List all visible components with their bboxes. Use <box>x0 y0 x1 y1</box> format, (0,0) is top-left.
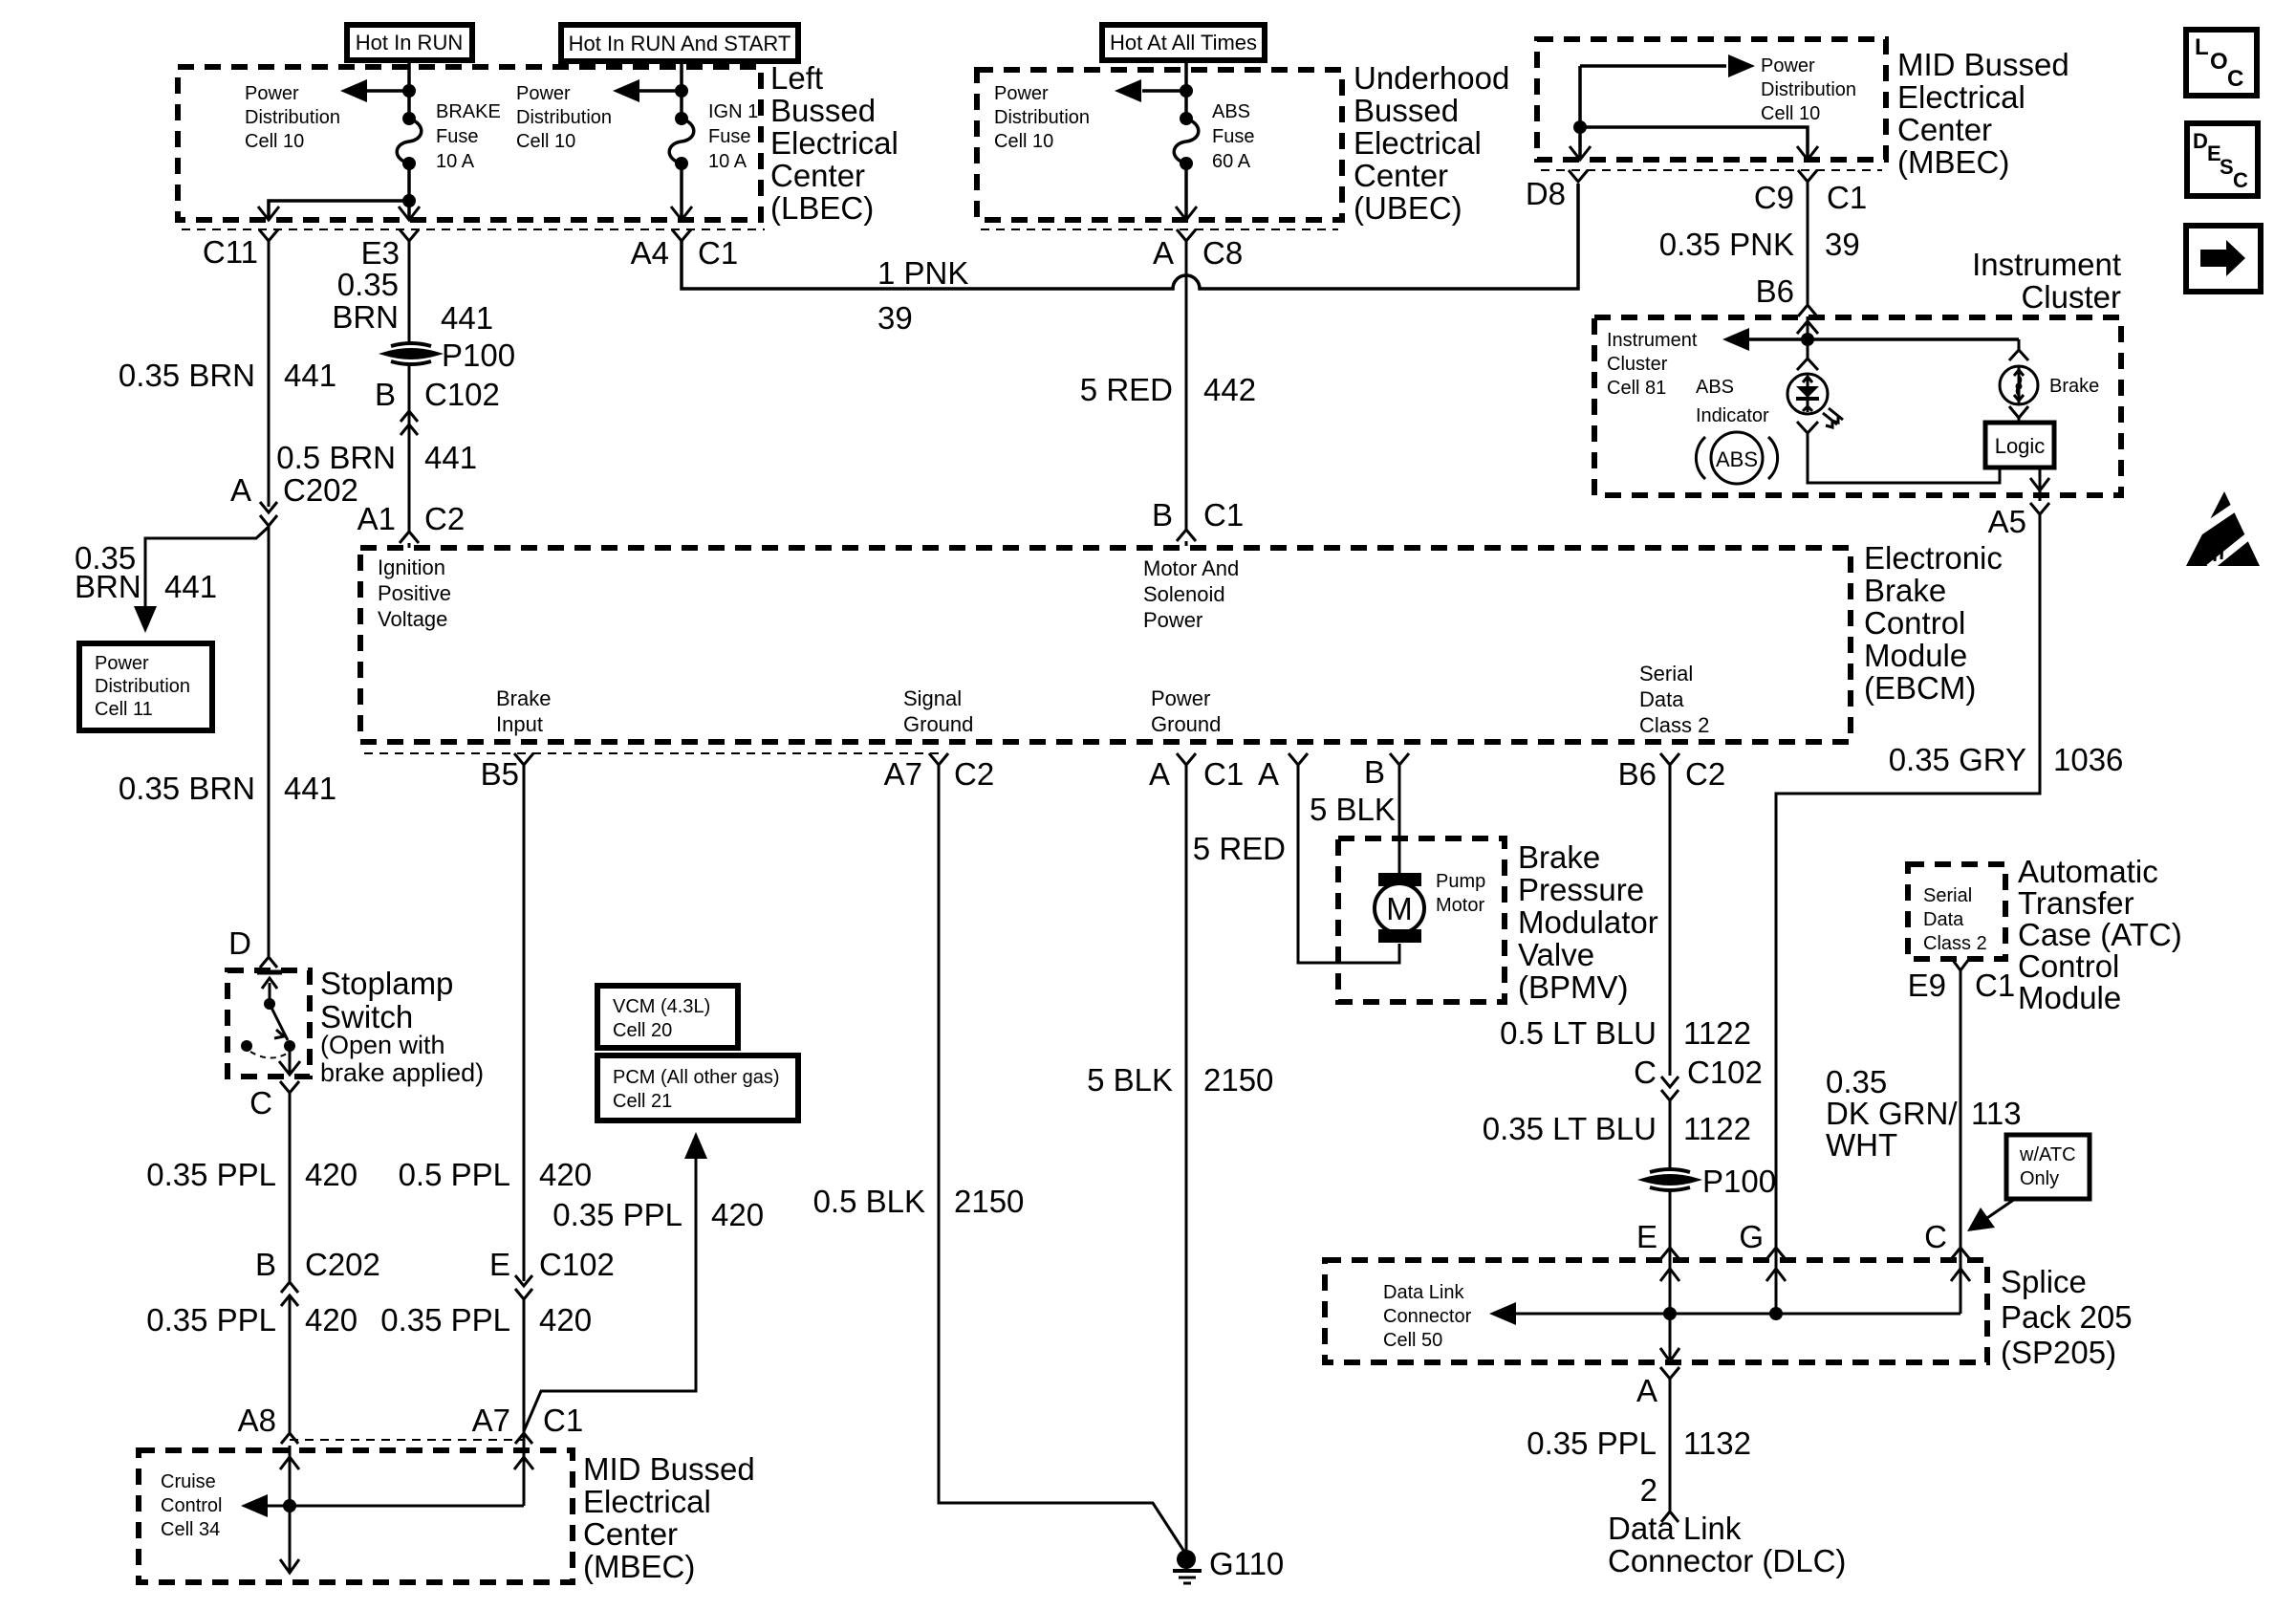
svg-text:BRN: BRN <box>332 299 399 335</box>
wire: 0.35 PPL 420 from C102 to A7/C1 <box>523 1299 526 1433</box>
svg-text:C102: C102 <box>424 377 500 412</box>
svg-text:420: 420 <box>539 1302 592 1338</box>
connector E / C102 (inline, pointing down) <box>489 1247 615 1299</box>
connector A1 / C2 into EBCM top <box>357 501 466 548</box>
svg-text:420: 420 <box>539 1157 592 1192</box>
svg-text:B6: B6 <box>1618 756 1657 792</box>
svg-text:IgnitionPositiveVoltage: IgnitionPositiveVoltage <box>378 555 451 631</box>
svg-text:5 RED: 5 RED <box>1080 372 1173 407</box>
svg-text:B: B <box>255 1247 276 1282</box>
Brake bulb <box>2000 366 2038 405</box>
svg-text:B5: B5 <box>481 756 519 792</box>
connector A (motor power) <box>1258 753 1308 792</box>
connector D8 <box>1526 170 1588 211</box>
wire: 0.35 PPL 420 from C202 to A8 <box>289 1295 292 1434</box>
svg-text:0.5 PPL: 0.5 PPL <box>399 1157 510 1192</box>
wire: 0.35 LT BLU to P100 <box>1669 1100 1672 1167</box>
splice P100 (lower) <box>1644 1164 1776 1199</box>
svg-text:0.35: 0.35 <box>337 267 399 302</box>
svg-text:39: 39 <box>1825 227 1860 262</box>
svg-text:0.35 PPL: 0.35 PPL <box>146 1157 276 1192</box>
arrow into edge at D8 <box>1570 146 1591 160</box>
svg-text:Hot In RUN: Hot In RUN <box>356 31 463 54</box>
connector C / C102 (inline, pointing down) <box>1634 1055 1763 1100</box>
wire: B5 brake input from EBCM down <box>523 765 526 1281</box>
svg-text:B6: B6 <box>1756 273 1794 309</box>
svg-text:A: A <box>1153 235 1174 271</box>
connector C9 / C1 <box>1754 170 1867 215</box>
fuse BRAKE 10A <box>397 112 422 170</box>
wire: 1 PNK 39 from A4/C1 to D8 with hop over ABS wire <box>682 184 1578 289</box>
connector A8 into MBEC <box>238 1403 298 1444</box>
svg-text:0.5 BLK: 0.5 BLK <box>813 1184 925 1219</box>
splice P100 (upper) <box>385 337 515 373</box>
wire: internal feed line with left arrow <box>1749 337 2019 341</box>
icon: ESD warning triangle <box>2186 491 2260 568</box>
arrow: logic output crossing cluster edge <box>2030 478 2049 490</box>
svg-text:113: 113 <box>1971 1096 2022 1131</box>
wire: P100 to splice pack E <box>1669 1191 1672 1260</box>
wire: arrow to Power Distribution (left) <box>365 89 409 93</box>
svg-text:Hot In RUN And START: Hot In RUN And START <box>569 32 791 55</box>
svg-text:C: C <box>2233 168 2248 192</box>
connector C (stoplamp switch output) <box>249 1081 299 1120</box>
connector line above MBEC bottom box <box>290 1439 524 1441</box>
wire: splice bus with left arrow <box>1516 1313 1960 1316</box>
svg-text:C: C <box>249 1085 272 1120</box>
svg-text:1036: 1036 <box>2053 742 2123 777</box>
wire: 0.35 PNK 39 from C9/C1 to cluster B6 <box>1807 182 1809 304</box>
svg-text:A7: A7 <box>884 756 922 792</box>
Logic box <box>1985 423 2054 468</box>
arrow into edge at C9 <box>1797 146 1818 160</box>
svg-text:D: D <box>2193 129 2208 153</box>
svg-text:D8: D8 <box>1526 176 1566 211</box>
component box: w/ATC Only <box>2006 1135 2090 1199</box>
connector A7 / C1 into MBEC (slash) <box>472 1403 584 1446</box>
connector B (pump motor return) <box>1364 753 1409 790</box>
wire: G entry arrow inside splice pack <box>1775 1260 1778 1314</box>
wire: internal distribution tee with junction dot <box>1578 66 1582 160</box>
connector B6 into cluster <box>1756 273 1817 339</box>
arrow into UBEC edge at A <box>1176 207 1197 220</box>
wire: 5 BLK pump motor B <box>1398 765 1401 876</box>
connector line under LBEC <box>182 228 765 230</box>
svg-text:0.35 PNK: 0.35 PNK <box>1659 227 1794 262</box>
svg-text:ABSFuse60 A: ABSFuse60 A <box>1212 101 1254 172</box>
wire: 0.35 BRN 441 down to stoplamp D <box>268 526 271 956</box>
svg-text:E: E <box>1636 1219 1657 1254</box>
svg-text:P100: P100 <box>1702 1164 1776 1199</box>
wire: bulb to Logic <box>2009 406 2028 418</box>
fuse IGN 1 10A <box>613 61 694 170</box>
svg-text:A4: A4 <box>631 235 669 271</box>
wire: E entry arrow inside splice pack <box>1669 1260 1672 1314</box>
svg-text:1122: 1122 <box>1683 1015 1751 1051</box>
node: bus junction at G <box>1769 1307 1783 1320</box>
svg-text:A8: A8 <box>238 1403 276 1438</box>
connector A below splice pack <box>1636 1367 1679 1408</box>
icon: DESC box <box>2187 123 2258 196</box>
svg-text:0.35 GRY: 0.35 GRY <box>1889 742 2026 777</box>
connector A / C1 (power ground) <box>1149 753 1244 792</box>
UBEC dashed box (Underhood Bussed Electrical Center) <box>977 70 1342 220</box>
svg-text:C202: C202 <box>305 1247 380 1282</box>
wire: C entry arrow inside splice pack <box>1960 1260 1962 1314</box>
svg-text:C11: C11 <box>203 234 258 270</box>
connector E into splice pack <box>1636 1219 1679 1258</box>
icon: LOC box <box>2186 30 2257 96</box>
wire: 0.35 PPL 1132 to DLC <box>1669 1379 1672 1512</box>
svg-text:Hot At All Times: Hot At All Times <box>1110 31 1257 54</box>
svg-text:0.5 LT BLU: 0.5 LT BLU <box>1500 1015 1657 1051</box>
EBCM dashed box (Electronic Brake Control Module) <box>360 548 1851 742</box>
svg-text:1 PNK: 1 PNK <box>877 255 968 291</box>
svg-text:1122: 1122 <box>1683 1111 1751 1146</box>
svg-text:5 BLK: 5 BLK <box>1310 792 1396 827</box>
svg-text:C: C <box>1634 1055 1657 1090</box>
svg-text:ABS: ABS <box>1716 447 1758 471</box>
svg-text:441: 441 <box>284 358 336 393</box>
svg-text:E: E <box>489 1247 510 1282</box>
Instrument Cluster dashed box <box>1594 317 2121 495</box>
svg-text:C202: C202 <box>283 472 358 508</box>
svg-text:M: M <box>1386 891 1413 926</box>
node: junction dot ABS feed <box>1180 84 1193 98</box>
wire: LED output to logic bus <box>1797 422 1818 433</box>
wire: LED to logic bus <box>1808 433 2000 483</box>
node: junction dot brake feed <box>402 84 416 98</box>
connector B / C102 (inline, pointing up) <box>375 365 500 436</box>
svg-text:0.35 PPL: 0.35 PPL <box>1527 1425 1657 1461</box>
connector E3 <box>361 229 419 344</box>
svg-text:BRN: BRN <box>75 569 141 604</box>
ground G110 <box>1173 1546 1284 1583</box>
svg-text:C2: C2 <box>1685 756 1725 792</box>
svg-text:D: D <box>228 925 251 961</box>
wire: 5 RED motor power A <box>1298 765 1399 963</box>
symbol: (ABS) telltale <box>1696 432 1777 484</box>
svg-text:C1: C1 <box>543 1403 583 1438</box>
component box: VCM (4.3L) Cell 20 <box>597 986 738 1048</box>
wire: A exit from splice pack <box>1669 1314 1672 1365</box>
svg-text:P100: P100 <box>442 337 515 373</box>
svg-text:A: A <box>1149 756 1170 792</box>
svg-text:E9: E9 <box>1908 968 1946 1003</box>
icon: next-page arrow box <box>2186 226 2261 292</box>
connector B / C202 (inline, pointing up) <box>255 1247 380 1306</box>
LED light rays <box>1823 408 1843 427</box>
svg-text:39: 39 <box>877 300 913 336</box>
svg-text:C: C <box>1924 1219 1947 1254</box>
svg-text:441: 441 <box>284 771 336 806</box>
svg-text:0.35 PPL: 0.35 PPL <box>146 1302 276 1338</box>
svg-text:441: 441 <box>424 440 477 475</box>
svg-text:5 BLK: 5 BLK <box>1087 1062 1173 1098</box>
svg-text:C1: C1 <box>698 235 738 271</box>
svg-text:B: B <box>1152 497 1173 533</box>
svg-text:C8: C8 <box>1202 235 1243 271</box>
power label box: Hot In RUN <box>347 25 472 60</box>
svg-text:C1: C1 <box>1203 497 1244 533</box>
LBEC dashed box (Left Bussed Electrical Center) <box>178 67 761 220</box>
wire: 0.35 DK GRN/WHT 113 from E9/C1 to splice pack C <box>1960 970 1962 1260</box>
wire: IGN1 fuse output <box>680 163 683 220</box>
svg-text:0.35 PPL: 0.35 PPL <box>552 1197 682 1232</box>
MBEC bottom dashed box <box>139 1450 573 1582</box>
ABS Indicator LED <box>1787 374 1828 414</box>
connector E9 / C1 <box>1908 959 2016 1003</box>
arrow into LBEC edge at A4 <box>671 207 692 220</box>
wire: Logic output down through cluster edge <box>2039 468 2042 501</box>
svg-text:2: 2 <box>1640 1472 1657 1508</box>
svg-text:A: A <box>1636 1373 1657 1408</box>
svg-text:C1: C1 <box>1203 756 1244 792</box>
svg-text:442: 442 <box>1203 372 1256 407</box>
arrow: A8 wire exits bottom of MBEC <box>280 1559 299 1573</box>
connector line under EBCM (left part) <box>364 752 942 754</box>
stoplamp switch S1 <box>227 970 310 1077</box>
svg-text:2150: 2150 <box>954 1184 1024 1219</box>
arrow into LBEC edge at C11 <box>258 207 279 220</box>
wire: A8 entry arrow inside MBEC <box>289 1446 292 1573</box>
svg-text:C9: C9 <box>1754 180 1794 215</box>
svg-text:Brake: Brake <box>2049 376 2099 397</box>
node: junction dot at branch <box>402 194 416 207</box>
pump motor M <box>1375 873 1424 943</box>
svg-text:C: C <box>2227 66 2243 92</box>
connector line under UBEC <box>981 228 1338 230</box>
node: junction dot cluster feed <box>1801 333 1814 346</box>
wire: 5 RED 442 from UBEC A/C8 to EBCM B/C1 <box>1185 241 1188 531</box>
svg-text:420: 420 <box>305 1157 357 1192</box>
component box: Power Distribution Cell 11 <box>79 643 212 730</box>
svg-text:C1: C1 <box>1827 180 1867 215</box>
svg-text:C2: C2 <box>954 756 994 792</box>
BPMV dashed box <box>1338 838 1505 1002</box>
svg-text:S: S <box>2220 155 2234 179</box>
wire: Hot At All Times feed <box>1184 60 1188 119</box>
svg-text:A1: A1 <box>357 501 396 536</box>
connector A4 / C1 <box>631 229 739 271</box>
svg-text:A7: A7 <box>472 1403 510 1438</box>
svg-text:L: L <box>2195 34 2209 60</box>
wire: LED feed stub <box>1807 339 1809 359</box>
wire: arrow to Power Distribution (UBEC) <box>1142 89 1186 93</box>
svg-text:420: 420 <box>305 1302 357 1338</box>
wire: branch to PCM/VCM riser <box>524 1147 696 1431</box>
svg-text:B: B <box>1364 754 1385 790</box>
svg-text:E3: E3 <box>361 235 400 271</box>
wire: arrow pointing right to Power Distribution <box>1580 64 1726 68</box>
svg-text:C102: C102 <box>539 1247 615 1282</box>
node: bus junction at E <box>1663 1307 1677 1320</box>
MBEC dashed box top (MID Bussed Electrical Center) <box>1537 39 1886 160</box>
wire: fuse output down and branch left <box>407 163 411 220</box>
connector B5 <box>481 753 533 792</box>
svg-text:2150: 2150 <box>1203 1062 1273 1098</box>
connector pin 2 of DLC <box>1640 1472 1679 1522</box>
svg-text:O: O <box>2210 49 2228 75</box>
svg-text:420: 420 <box>711 1197 764 1232</box>
wire: branch to C11 <box>269 201 409 218</box>
wire: cruise control feed with left arrow <box>266 1505 524 1508</box>
svg-text:0.35 BRN: 0.35 BRN <box>119 771 255 806</box>
wire: Hot In RUN feed into LBEC <box>407 60 411 119</box>
connector B / C1 into EBCM <box>1152 497 1244 546</box>
power label box: Hot In RUN And START <box>561 25 798 61</box>
svg-text:C2: C2 <box>424 501 465 536</box>
component box: PCM (All other gas) Cell 21 <box>597 1055 798 1120</box>
svg-text:5 RED: 5 RED <box>1193 831 1286 866</box>
wire: 0.35 GRY 1036 from A5 down to splice pack G <box>1776 514 2040 1260</box>
power label box: Hot At All Times <box>1102 25 1265 60</box>
svg-text:1132: 1132 <box>1683 1425 1751 1461</box>
wire: 0.35 PPL 420 from C to B/C202 <box>289 1093 292 1281</box>
connector A / C202 (inline, pointing down) <box>230 472 358 526</box>
svg-text:B: B <box>375 377 396 412</box>
connector G into splice pack <box>1739 1219 1785 1258</box>
svg-text:C102: C102 <box>1687 1055 1763 1090</box>
svg-text:A5: A5 <box>1988 504 2026 539</box>
wire: 5 BLK 2150 power ground <box>1185 765 1188 1558</box>
wire: 0.5 BLK 2150 signal ground <box>939 765 1186 1555</box>
wire: ABS fuse output <box>1184 163 1188 220</box>
svg-text:G110: G110 <box>1209 1546 1284 1581</box>
connector C11 <box>203 229 278 507</box>
svg-text:A: A <box>230 472 251 508</box>
ATC serial data dashed box <box>1908 864 2005 959</box>
connector C into splice pack <box>1924 1219 1969 1258</box>
connector line under MBEC <box>1541 169 1882 171</box>
svg-text:441: 441 <box>441 300 493 336</box>
connector A5 <box>1988 503 2049 539</box>
wire: entry arrow at B6 inside cluster <box>1797 321 1818 334</box>
svg-text:Logic: Logic <box>1995 434 2046 458</box>
svg-text:0.35 PPL: 0.35 PPL <box>380 1302 510 1338</box>
arrow into LBEC edge at E3 <box>399 207 420 220</box>
connector B6 / C2 (serial data) <box>1618 753 1726 792</box>
svg-text:441: 441 <box>164 569 217 604</box>
wire: serial data 0.5 LT BLU from EBCM B6/C2 <box>1669 765 1672 1076</box>
wire: 0.5 BRN 441 to EBCM A1/C2 <box>408 424 411 532</box>
Splice Pack dashed box <box>1325 1260 1987 1362</box>
wire: w/ATC pointer arrow <box>1984 1199 2015 1220</box>
svg-text:A: A <box>1258 756 1279 792</box>
connector A / C8 <box>1153 229 1243 271</box>
wire: A7/C1 entry arrow inside MBEC <box>523 1446 526 1506</box>
wire: branch to Power Distribution Cell 11 <box>145 527 269 620</box>
connector D (stoplamp switch input) <box>228 925 277 968</box>
connector: LED feed chevron <box>1797 359 1818 370</box>
svg-text:C1: C1 <box>1975 968 2015 1003</box>
svg-text:0.5 BRN: 0.5 BRN <box>276 440 396 475</box>
fuse ABS 60A <box>1174 112 1199 170</box>
svg-text:CruiseControlCell 34: CruiseControlCell 34 <box>161 1471 222 1540</box>
connector A7 / C2 (signal ground) <box>884 753 995 792</box>
svg-text:G: G <box>1739 1219 1764 1254</box>
svg-text:0.35 BRN: 0.35 BRN <box>119 358 255 393</box>
Brake bulb branch chevron <box>2009 350 2028 360</box>
svg-text:0.35 LT BLU: 0.35 LT BLU <box>1483 1111 1657 1146</box>
